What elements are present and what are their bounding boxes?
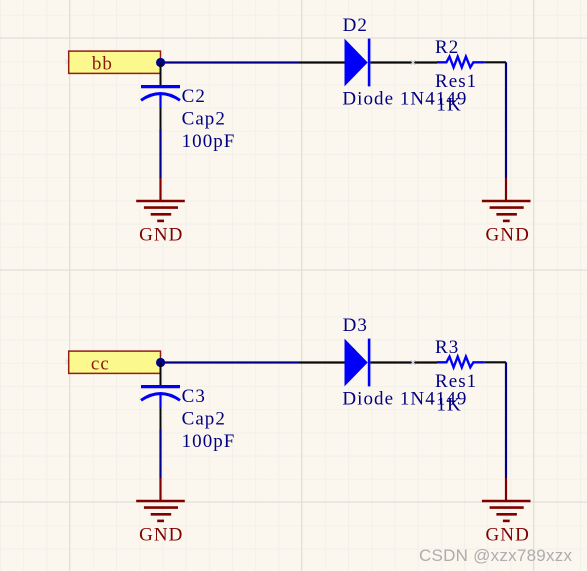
- svg-text:Res1: Res1: [435, 71, 477, 92]
- ground GND right: [482, 178, 531, 245]
- capacitor C3 pin 1: [160, 363, 162, 386]
- diode D3 pin 2: [371, 361, 438, 363]
- pin cross marker bottom: [411, 360, 416, 365]
- pin cross marker: [411, 60, 416, 65]
- port cc: [69, 351, 161, 375]
- svg-text:1K: 1K: [436, 395, 461, 416]
- capacitor C3: [141, 387, 180, 408]
- junction node at bb: [156, 58, 165, 67]
- ground GND left bottom: [136, 478, 185, 545]
- svg-text:R3: R3: [435, 337, 459, 358]
- diode D2: [345, 39, 370, 87]
- ground GND right bottom: [482, 478, 531, 545]
- svg-text:GND: GND: [139, 224, 183, 245]
- wire capacitor C3 to ground: [159, 429, 161, 478]
- svg-text:100pF: 100pF: [182, 431, 236, 452]
- diode D3 pin 1: [300, 361, 345, 363]
- port cc connection marker: [66, 360, 71, 365]
- svg-text:D2: D2: [343, 15, 368, 36]
- junction node at cc: [156, 358, 165, 367]
- resistor R3 pin 2: [485, 361, 506, 363]
- diode D2 pin 2: [371, 61, 438, 63]
- diode D3: [345, 339, 370, 387]
- wire capacitor C2 to ground: [159, 129, 161, 178]
- capacitor C2 pin 1: [160, 63, 162, 86]
- svg-text:CSDN @xzx789xzx: CSDN @xzx789xzx: [419, 546, 573, 565]
- resistor R2: [437, 57, 485, 68]
- svg-text:bb: bb: [92, 54, 113, 75]
- diode D2 pin 1: [300, 61, 345, 63]
- capacitor C2: [141, 87, 180, 108]
- svg-text:100pF: 100pF: [182, 131, 236, 152]
- svg-text:GND: GND: [486, 224, 530, 245]
- capacitor C3 pin 2: [160, 408, 162, 430]
- wire port bb to diode D2: [161, 61, 300, 63]
- svg-text:Cap2: Cap2: [182, 408, 226, 429]
- svg-text:1K: 1K: [436, 95, 461, 116]
- resistor R3: [437, 357, 485, 368]
- port bb: [69, 51, 161, 75]
- svg-text:C3: C3: [182, 386, 206, 407]
- svg-text:C2: C2: [182, 86, 206, 107]
- capacitor C2 pin 2: [160, 108, 162, 130]
- svg-text:Res1: Res1: [435, 371, 477, 392]
- svg-text:D3: D3: [343, 315, 368, 336]
- wire port cc to diode D3: [161, 361, 300, 363]
- port bb connection marker: [66, 60, 71, 65]
- svg-text:GND: GND: [139, 524, 183, 545]
- wire resistor R3 to ground: [505, 362, 507, 478]
- svg-text:Cap2: Cap2: [182, 108, 226, 129]
- svg-text:GND: GND: [486, 524, 530, 545]
- wire resistor R2 to ground: [505, 62, 507, 178]
- svg-text:R2: R2: [435, 37, 459, 58]
- ground GND left: [136, 178, 185, 245]
- resistor R2 pin 2: [485, 61, 506, 63]
- svg-text:cc: cc: [91, 354, 110, 375]
